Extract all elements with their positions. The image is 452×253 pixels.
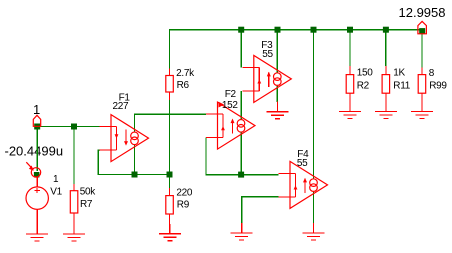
ground F4 in- (231, 223, 253, 240)
svg-text:8: 8 (429, 68, 435, 79)
svg-text:220: 220 (176, 188, 193, 199)
svg-text:1K: 1K (393, 68, 405, 79)
CCCS F3 (242, 55, 291, 102)
wire: F3 out- to ground (276, 86, 278, 102)
svg-text:F2: F2 (225, 89, 237, 100)
junction R2 on top bus (347, 27, 353, 33)
wire: top bus to F3 in+ (240, 30, 242, 68)
svg-text:1: 1 (53, 174, 59, 185)
svg-text:R6: R6 (177, 80, 190, 91)
wire: top bus to R11 (385, 30, 387, 66)
svg-text:R99: R99 (429, 81, 447, 92)
CCCS F1 (100, 115, 149, 162)
junction F4 out+ on top bus (311, 27, 317, 33)
ground V1 (26, 224, 48, 241)
wire: F2 out+ riser to F3 in- (240, 91, 242, 120)
svg-text:55: 55 (297, 158, 308, 169)
wire: F1 in- loop to bottom-left bus (98, 150, 169, 174)
resistor R11 (385, 66, 387, 112)
svg-text:55: 55 (262, 49, 273, 60)
wire: node 1 to F1 in+ (37, 126, 99, 128)
wire: F1 out+ riser and link to F2 in+ (135, 114, 207, 132)
junction node 1 (34, 124, 40, 130)
wire: F4 out- riser to ground (313, 192, 315, 223)
svg-text:R11: R11 (393, 81, 410, 92)
junction R11 on top bus (383, 27, 389, 33)
wire: F4 in- loop to ground (242, 197, 279, 224)
wire: F2 in- loop to F4 in+ (206, 138, 279, 175)
resistor R99 (421, 68, 423, 112)
svg-text:-20.4499u: -20.4499u (5, 144, 64, 159)
ground R9 (159, 224, 181, 241)
svg-text:2.7k: 2.7k (176, 68, 195, 79)
svg-text:R9: R9 (177, 200, 190, 211)
wire: top bus to F3 out+ (276, 30, 278, 73)
junction F1 out- on bus (132, 172, 138, 178)
svg-text:150: 150 (357, 68, 374, 79)
resistor R2 (349, 66, 351, 112)
resistor R7 (73, 184, 75, 234)
wire: F1 out- riser (134, 145, 136, 175)
CCCS F2 (206, 102, 255, 149)
resistor R9 (169, 177, 171, 188)
svg-text:R2: R2 (357, 81, 370, 92)
svg-text:152: 152 (222, 100, 239, 111)
probe circle at V1 node (31, 168, 40, 177)
ground F3 out- (266, 102, 288, 119)
svg-text:R7: R7 (80, 199, 93, 210)
ground F4 out- (303, 223, 325, 240)
junction V1 top (34, 172, 40, 178)
svg-text:227: 227 (113, 101, 130, 112)
ground R11 (375, 102, 397, 119)
node marker at node 1 (33, 115, 40, 126)
probe pennant at F2 input (219, 102, 225, 108)
CCCS F4 (279, 161, 328, 208)
junction R6/R9 on bus (167, 172, 173, 178)
wire: junction to R7 (73, 127, 75, 185)
junction output node (419, 28, 425, 34)
wire: node 1 down to V1 node (36, 127, 38, 172)
node marker at output 12.9958 (418, 21, 427, 33)
voltage source V1 (36, 177, 38, 234)
junction F3 out+ on top bus (275, 27, 281, 33)
svg-text:1: 1 (33, 102, 40, 117)
svg-text:50k: 50k (80, 187, 97, 198)
wire: top bus y=29.7 with corner down to R6 (170, 30, 423, 68)
junction F2 out- on lower bus (238, 172, 244, 178)
ground R2 (339, 102, 361, 119)
junction F3 in+ on top bus (238, 27, 244, 33)
ground R7 (63, 224, 85, 241)
wire: F2 out- riser (240, 133, 242, 175)
wire: output node down to R99 (421, 30, 423, 68)
junction node1/R7 (71, 124, 77, 130)
svg-text:V1: V1 (50, 187, 62, 198)
wire: R6 bottom to bottom-left bus (169, 100, 171, 174)
svg-text:12.9958: 12.9958 (399, 5, 446, 20)
resistor R6 (169, 68, 171, 100)
ground R99 (411, 102, 433, 119)
probe arrow at V1 node (26, 162, 31, 168)
wire: top bus to F4 out+ riser (313, 30, 315, 179)
wire: top bus to R2 (349, 30, 351, 66)
